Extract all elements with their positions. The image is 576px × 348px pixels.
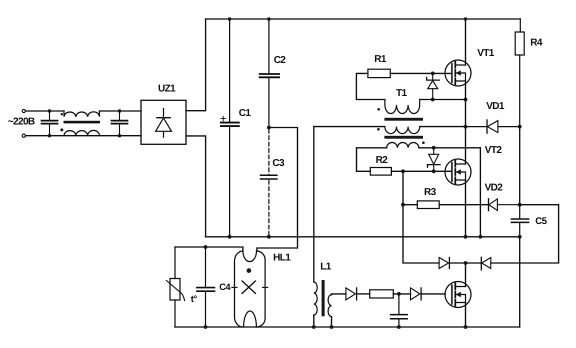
node C3 bottom rail <box>267 235 271 239</box>
svg-text:~220B: ~220B <box>8 116 35 127</box>
wire UZ1 bottom output <box>186 136 206 237</box>
svg-text:HL1: HL1 <box>273 253 291 264</box>
node VT2 source rail <box>464 235 468 239</box>
label C1 <box>239 108 252 119</box>
wire L1 bottom <box>313 315 315 327</box>
wire L1 feedback bottom <box>331 317 333 327</box>
capacitor input filter 2 <box>112 111 128 136</box>
node R2 R3 takeoff <box>401 169 405 173</box>
node midpoint T1 row <box>464 125 468 129</box>
terminal top input <box>22 109 25 112</box>
node R3 left <box>401 203 405 207</box>
node winding3 rail <box>479 235 483 239</box>
inductor choke top winding <box>64 111 100 117</box>
node input cap1 bottom <box>48 134 51 137</box>
label VT2 <box>485 145 503 156</box>
wire R3 branch vertical <box>403 171 439 263</box>
svg-text:R3: R3 <box>424 187 437 198</box>
wire gate chain c <box>421 293 445 295</box>
svg-text:T1: T1 <box>396 88 408 99</box>
choke polarity dot top <box>61 113 63 115</box>
svg-text:VT2: VT2 <box>485 145 503 156</box>
node C1 bottom rail <box>228 235 232 239</box>
capacitor C4 <box>197 247 215 327</box>
wire top rail <box>206 18 521 20</box>
wire right vertical mid <box>519 127 521 205</box>
diode gate chain 2 <box>411 288 422 300</box>
label L1 <box>320 261 332 272</box>
T1 polarity dot w2 <box>377 128 380 131</box>
choke polarity dot bottom <box>60 128 63 131</box>
label C2 <box>274 55 287 66</box>
label R2 <box>376 155 389 166</box>
node C2 C3 midpoint <box>267 126 271 130</box>
lamp bottom filament <box>244 311 257 327</box>
svg-text:VD2: VD2 <box>485 183 504 194</box>
node C1 top <box>228 17 232 21</box>
lamp glow cross <box>242 281 255 293</box>
inductor L1 main winding <box>314 282 317 315</box>
wire R2 right to VT2 gate <box>391 170 452 172</box>
node zener VT1 top <box>431 72 435 76</box>
label T1 <box>396 88 408 99</box>
node zener VT2 top <box>432 146 436 150</box>
label C4 <box>219 282 231 292</box>
wire C2C3 midpoint to lamp <box>257 128 298 252</box>
wire lamp block top <box>175 247 243 251</box>
svg-text:C1: C1 <box>239 108 252 119</box>
transistor VT2 <box>445 159 471 185</box>
transformer T1 winding2 <box>385 127 420 134</box>
svg-text:R2: R2 <box>376 155 389 166</box>
diode ignition left <box>439 258 465 269</box>
node C4 top <box>204 245 208 249</box>
wire VT3 source <box>465 303 467 328</box>
wire R1 left to T1 winding1 <box>356 73 385 99</box>
wire R3 left short <box>403 204 417 206</box>
node C5 bottom rail <box>518 235 522 239</box>
diode gate chain 1 <box>346 288 357 300</box>
lamp inner dot <box>247 268 252 273</box>
diode VD1 <box>466 120 520 133</box>
T1 core lower <box>384 136 423 139</box>
wire VT3 drain <box>465 263 467 287</box>
wire gate chain a <box>357 293 370 295</box>
zener diode VT1 <box>427 73 440 99</box>
node input cap1 top <box>48 109 51 112</box>
resistor R4 <box>515 19 524 127</box>
node gate cap rail <box>397 325 401 329</box>
wire input bottom <box>26 135 142 137</box>
thermistor t <box>166 247 184 327</box>
transistor VT1 <box>445 60 471 86</box>
wire T1 row to L1 <box>313 127 315 282</box>
wire bottom rail lamp <box>175 326 520 328</box>
T1 core upper <box>384 118 423 121</box>
svg-text:t°: t° <box>191 294 198 305</box>
transformer T1 winding1 <box>385 100 420 114</box>
svg-text:VT1: VT1 <box>477 48 495 59</box>
label R1 <box>374 54 387 65</box>
capacitor C2 <box>260 19 279 128</box>
wire R1 right to VT1 gate <box>390 72 452 74</box>
inductor choke bottom winding <box>64 130 100 135</box>
svg-text:UZ1: UZ1 <box>158 83 176 94</box>
node L1 feedback rail <box>330 325 334 329</box>
capacitor gate chain <box>391 294 408 327</box>
wire T1 winding3 left to R2 <box>357 148 387 172</box>
inductor L1 feedback winding <box>328 295 331 317</box>
capacitor C1 electrolytic <box>221 19 239 237</box>
svg-text:C2: C2 <box>274 55 287 66</box>
wire L1 feedback top <box>332 293 346 296</box>
resistor R2 <box>370 168 391 176</box>
node VT3 drain top <box>464 261 468 265</box>
T1 polarity dot w1 <box>377 108 380 111</box>
label R3 <box>424 187 437 198</box>
node zener VT2 bottom <box>432 169 436 173</box>
L1 core <box>322 280 325 316</box>
transformer T1 winding3 <box>387 143 419 148</box>
wire input top <box>26 110 142 112</box>
svg-text:R4: R4 <box>530 37 543 48</box>
wire T1 winding3 right <box>419 148 481 237</box>
capacitor C5 <box>511 205 528 237</box>
label VT1 <box>477 48 495 59</box>
resistor R3 <box>417 201 439 209</box>
node input cap2 bottom <box>118 134 121 137</box>
label VD1 <box>486 101 505 112</box>
svg-text:C3: C3 <box>272 158 285 169</box>
choke core <box>64 121 101 124</box>
label R4 <box>530 37 543 48</box>
wire VT2 source <box>465 180 467 237</box>
svg-text:VD1: VD1 <box>486 101 505 112</box>
lamp top filament <box>243 251 257 262</box>
wire bottom dc rail <box>206 236 520 238</box>
capacitor C3 with dashed leads <box>261 130 277 237</box>
label t degree <box>191 294 198 305</box>
label UZ1 <box>158 83 176 94</box>
diode VD2 <box>489 199 520 211</box>
node L1 bottom rail <box>312 325 316 329</box>
label ~220V input <box>8 116 35 127</box>
wire midpoint vertical <box>465 100 467 165</box>
wire R3 right to VD2 <box>439 204 488 206</box>
label VD2 <box>485 183 504 194</box>
node VT1 drain rail <box>464 17 468 21</box>
node VT3 source rail <box>464 325 468 329</box>
lamp side ticks <box>232 286 268 288</box>
wire right vertical low <box>519 237 521 327</box>
diode ignition right <box>466 257 491 270</box>
terminal bottom input <box>22 134 25 137</box>
node C2 top <box>267 17 271 21</box>
lamp HL1 tube outline <box>235 251 266 327</box>
resistor gate chain <box>370 290 394 298</box>
node input cap2 top <box>118 109 121 112</box>
bridge rectifier UZ1 <box>141 100 186 144</box>
svg-text:L1: L1 <box>320 261 332 272</box>
wire half-bridge T1 row left <box>314 126 385 128</box>
svg-text:C4: C4 <box>219 282 231 292</box>
label C3 <box>272 158 285 169</box>
node VD1 right <box>518 125 522 129</box>
wire VT1 source lead <box>465 81 467 100</box>
label HL1 <box>273 253 291 264</box>
wire snubber loop <box>491 205 559 263</box>
wire UZ1 top output <box>186 19 206 111</box>
wire half-bridge T1 row right <box>420 126 466 128</box>
svg-text:C5: C5 <box>535 216 547 227</box>
transistor VT3 <box>445 282 471 308</box>
wire VT1 source row <box>420 99 466 101</box>
wire gate chain b <box>393 293 410 295</box>
node VT1 source <box>464 98 468 102</box>
T1 polarity dot w3 <box>422 141 425 144</box>
node C4 bottom <box>204 325 208 329</box>
svg-text:R1: R1 <box>374 54 387 65</box>
wire VT1 drain <box>465 19 467 65</box>
node VD2 right <box>518 203 522 207</box>
zener diode VT2 <box>428 148 441 172</box>
node zener VT1 bottom <box>431 98 435 102</box>
node gate cap <box>397 292 401 296</box>
resistor R1 <box>368 69 390 77</box>
label C5 <box>535 216 547 227</box>
capacitor input filter 1 <box>42 111 58 136</box>
